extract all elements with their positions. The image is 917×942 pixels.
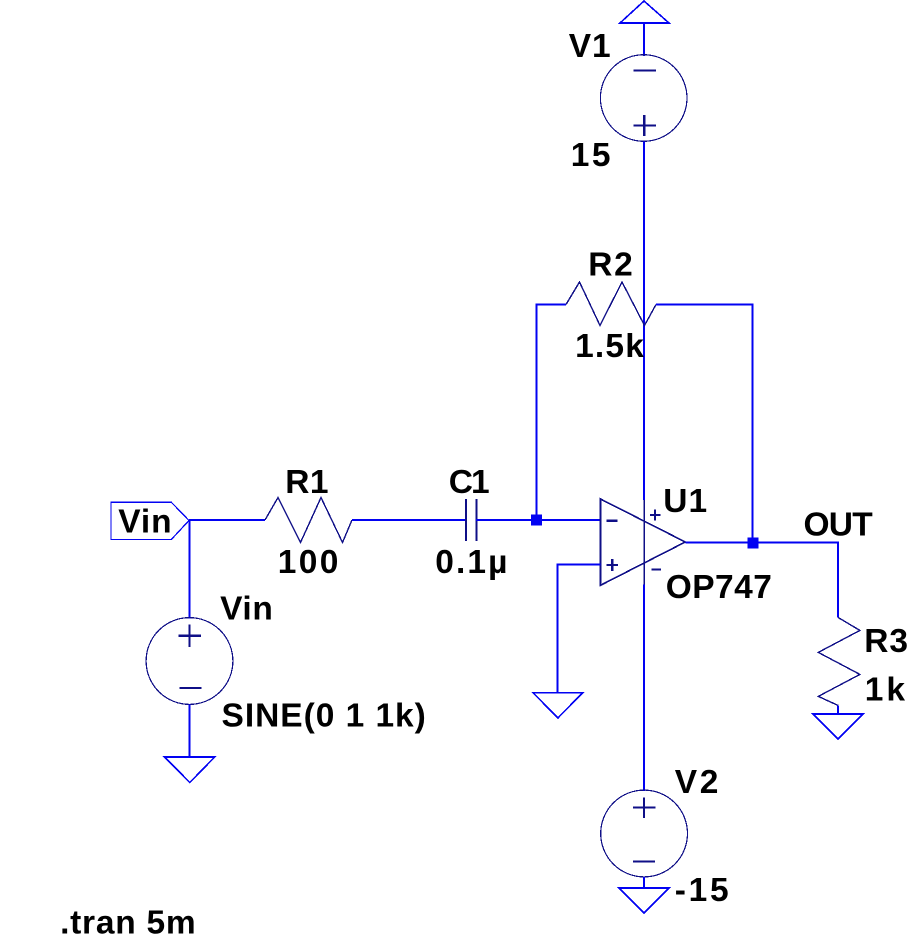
junction node at C1/R2: [531, 515, 542, 526]
resistor R3 zigzag: [818, 617, 860, 705]
op-amp U1 V+ plus mark: [650, 509, 661, 520]
svg-text:R2: R2: [588, 247, 633, 284]
svg-text:15: 15: [571, 137, 611, 174]
V2 plus mark: [633, 798, 656, 818]
svg-text:Vin: Vin: [118, 504, 171, 541]
svg-text:C1: C1: [449, 464, 490, 501]
ground flag (Vin): [165, 757, 215, 783]
V1 plus mark: [633, 115, 656, 136]
svg-text:-15: -15: [675, 872, 729, 909]
wire op-amp output to OUT: [685, 542, 838, 544]
wire Vin flag to Vin source: [189, 520, 191, 619]
wire OUT to R3: [837, 542, 839, 618]
svg-text:Vin: Vin: [220, 591, 273, 628]
resistor R2 zigzag: [566, 282, 656, 326]
svg-text:1.5k: 1.5k: [575, 328, 644, 365]
ground flag (R3): [813, 714, 863, 739]
svg-text:V2: V2: [675, 764, 719, 801]
voltage source V2 circle: [601, 790, 688, 877]
op-amp U1 non-inverting input mark: [607, 559, 619, 571]
Vin plus mark: [179, 625, 201, 647]
wire power flag to V1 top: [643, 23, 645, 56]
svg-text:R1: R1: [285, 464, 328, 501]
wire V1 bottom to op-amp V+ pin: [643, 141, 645, 500]
wire Vin source to ground: [189, 704, 191, 757]
resistor R1 zigzag: [265, 498, 352, 543]
svg-text:0.1µ: 0.1µ: [435, 544, 507, 581]
op-amp U1 inverting input mark: [606, 520, 617, 522]
wire non-inverting input to ground: [558, 564, 601, 693]
op-amp U1 V- minus mark: [652, 568, 662, 570]
svg-text:.tran 5m: .tran 5m: [60, 905, 196, 942]
Vin minus mark: [180, 687, 202, 689]
resistor R2 left wire: [537, 304, 567, 521]
resistor R2 right wire: [656, 304, 753, 544]
wire R3 to ground: [837, 705, 839, 714]
wire C1 to op-amp: [476, 519, 601, 521]
op-amp U1 triangle: [601, 499, 686, 585]
wire R1 to C1: [352, 519, 466, 521]
svg-text:100: 100: [278, 544, 339, 581]
ground flag (op-amp input): [533, 693, 583, 718]
voltage source Vin circle: [146, 618, 233, 705]
ground flag (V2): [619, 888, 669, 913]
power flag +15 net (up arrow): [620, 1, 669, 23]
port flag Vin: [111, 502, 189, 539]
svg-text:SINE(0 1 1k): SINE(0 1 1k): [222, 698, 426, 735]
svg-text:U1: U1: [663, 483, 707, 520]
V1 minus mark: [633, 69, 656, 71]
svg-text:1k: 1k: [865, 672, 906, 709]
wire V2 to ground: [643, 877, 645, 888]
svg-text:V1: V1: [569, 28, 611, 65]
wire op-amp V- to V2: [643, 585, 645, 791]
junction node at OUT: [748, 538, 759, 549]
capacitor C1 plates: [466, 499, 476, 541]
svg-text:R3: R3: [864, 623, 908, 660]
wire Vin flag to R1: [189, 519, 265, 521]
op-amp U1 V+ pin line: [643, 500, 645, 585]
svg-text:OUT: OUT: [804, 507, 874, 544]
voltage source V1 circle: [600, 55, 687, 142]
V2 minus mark: [633, 860, 655, 862]
svg-text:OP747: OP747: [666, 569, 772, 606]
